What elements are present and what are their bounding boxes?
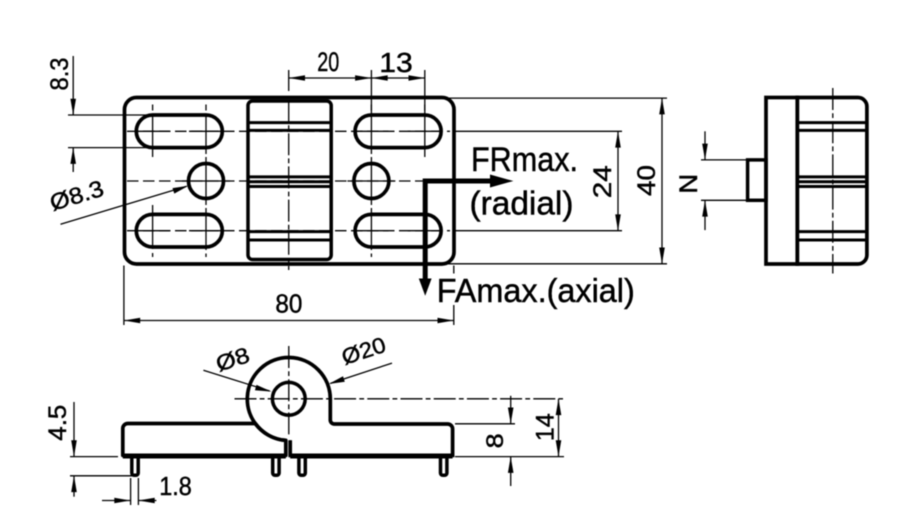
FR force arrow [425, 175, 513, 188]
svg-text:20: 20 [317, 47, 339, 77]
dim text 40 [633, 165, 661, 196]
svg-text:FRmax.: FRmax. [471, 141, 578, 179]
side groove lines [799, 123, 866, 240]
svg-text:N: N [675, 174, 703, 194]
boss crosshair [235, 346, 564, 436]
slot top-left [136, 115, 222, 148]
dimension 80 bottom [124, 266, 454, 326]
dimension 8.3 left [68, 56, 154, 172]
slot bottom-right [355, 214, 441, 247]
side plate edge [766, 98, 797, 265]
bore circle (Ø8) [272, 382, 305, 415]
dimension 1.8 [102, 478, 156, 505]
dimension 24 right [455, 131, 622, 230]
svg-text:14: 14 [531, 413, 559, 441]
svg-text:8: 8 [482, 433, 509, 448]
dimension 40 right [445, 98, 667, 264]
dimension 20/13 top [289, 70, 425, 115]
center channel block [248, 101, 331, 260]
FA force arrow [419, 179, 432, 296]
label Ø8.3 [47, 175, 107, 216]
left bar outline [123, 424, 286, 456]
svg-text:FAmax.(axial): FAmax.(axial) [437, 272, 635, 309]
svg-text:(radial): (radial) [470, 185, 574, 222]
svg-text:13: 13 [379, 47, 413, 78]
svg-text:24: 24 [589, 165, 617, 198]
dim text 8.3 [46, 58, 74, 91]
side vertical centerline [832, 88, 834, 274]
plate outline [125, 98, 455, 265]
leader Ø20 [329, 363, 392, 384]
slot top-right [355, 115, 441, 148]
label Ø8 [213, 342, 253, 376]
svg-text:80: 80 [275, 288, 302, 318]
side channel block [797, 98, 867, 265]
dimension N [701, 131, 747, 230]
dim text N [675, 174, 703, 194]
label (radial) [470, 185, 574, 222]
dimension 8 right [455, 396, 564, 486]
dimension 4.5 left [70, 402, 138, 497]
dim text 4.5 [44, 405, 72, 441]
label FRmax. [471, 141, 578, 179]
leader Ø8 [203, 370, 271, 391]
svg-text:8.3: 8.3 [46, 58, 74, 91]
dim text 8 [482, 433, 509, 448]
hole circle left [189, 164, 224, 199]
column centerlines [153, 105, 425, 258]
bar bottom edges [123, 455, 453, 459]
dim text 13 [379, 47, 413, 78]
boss arc (Ø20) [247, 358, 452, 456]
dim text 14 [531, 413, 559, 441]
pivot pin stub [748, 160, 766, 200]
row centerlines [127, 131, 450, 230]
dimension 14 right [556, 399, 562, 457]
clamp slit [286, 440, 290, 456]
dim text 20 [317, 47, 339, 77]
svg-text:4.5: 4.5 [44, 405, 72, 441]
dim text 24 [589, 165, 617, 198]
channel vertical centerline [288, 100, 290, 270]
dim text 80 [275, 288, 302, 318]
mounting pins [132, 457, 447, 475]
label FAmax.(axial) [437, 272, 639, 309]
slot bottom-left [136, 214, 222, 247]
hole circle right [354, 164, 389, 199]
svg-text:40: 40 [633, 165, 661, 196]
svg-text:1.8: 1.8 [159, 471, 192, 501]
channel groove lines [250, 123, 330, 240]
label Ø20 [338, 332, 389, 370]
leader Ø8.3 [61, 186, 189, 225]
dim text 1.8 [159, 471, 192, 501]
